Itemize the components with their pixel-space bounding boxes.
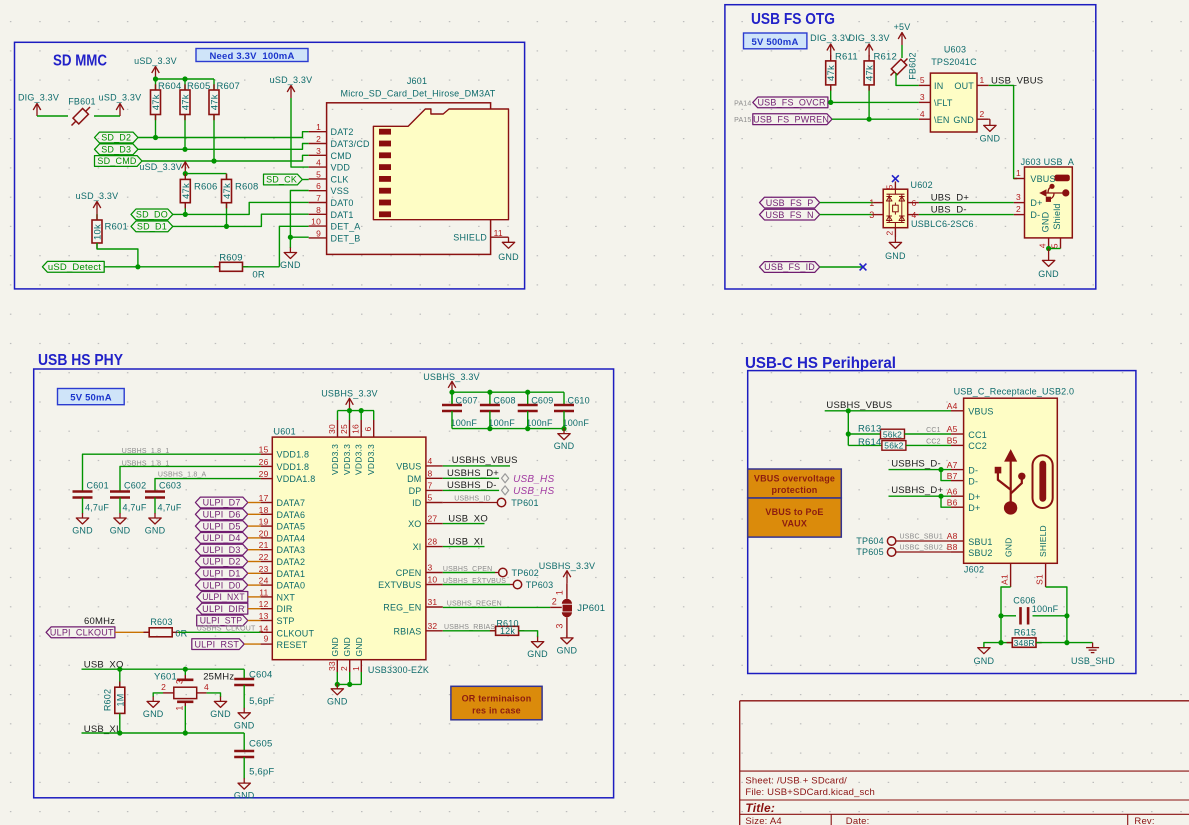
svg-text:VDDA1.8: VDDA1.8 <box>277 474 316 484</box>
svg-text:ULPI_DIR: ULPI_DIR <box>202 604 245 614</box>
svg-text:GND: GND <box>1040 211 1050 232</box>
svg-text:USB_C_Receptacle_USB2.0: USB_C_Receptacle_USB2.0 <box>954 387 1075 397</box>
svg-text:CLK: CLK <box>331 174 349 184</box>
svg-text:CC2: CC2 <box>968 441 987 451</box>
svg-text:VAUX: VAUX <box>782 519 807 529</box>
svg-text:USBHS_3.3V: USBHS_3.3V <box>423 372 480 382</box>
svg-text:USB_FS_ID: USB_FS_ID <box>764 262 815 272</box>
svg-text:Rev:: Rev: <box>1134 816 1154 825</box>
svg-text:VBUS: VBUS <box>396 461 421 471</box>
svg-text:VSS: VSS <box>331 186 350 196</box>
svg-text:25: 25 <box>339 424 349 434</box>
svg-text:USB HS PHY: USB HS PHY <box>38 352 124 369</box>
svg-text:ULPI_D5: ULPI_D5 <box>203 521 241 531</box>
svg-text:11: 11 <box>494 228 503 238</box>
svg-text:C608: C608 <box>493 396 515 406</box>
svg-text:B8: B8 <box>947 542 958 552</box>
svg-text:100nF: 100nF <box>488 418 515 428</box>
svg-text:4,7uF: 4,7uF <box>85 503 109 513</box>
svg-text:USBHS_VBUS: USBHS_VBUS <box>452 455 518 466</box>
svg-text:GND: GND <box>885 251 906 261</box>
svg-text:33: 33 <box>327 661 337 671</box>
svg-text:C603: C603 <box>159 481 181 491</box>
svg-text:SBU1: SBU1 <box>968 537 992 547</box>
svg-text:5: 5 <box>428 493 433 503</box>
svg-text:10: 10 <box>428 575 438 585</box>
svg-text:Sheet: /USB + SDcard/: Sheet: /USB + SDcard/ <box>745 776 847 787</box>
svg-text:Date:: Date: <box>846 816 870 825</box>
svg-text:USBHS_D+: USBHS_D+ <box>447 468 499 479</box>
svg-text:A6: A6 <box>947 486 958 496</box>
svg-text:23: 23 <box>259 564 269 574</box>
svg-text:10: 10 <box>311 217 321 227</box>
svg-text:DATA3: DATA3 <box>277 545 306 555</box>
svg-text:D-: D- <box>968 476 978 486</box>
svg-text:ULPI_D4: ULPI_D4 <box>203 533 241 543</box>
svg-text:U602: U602 <box>911 180 933 190</box>
svg-text:USBHS_D-: USBHS_D- <box>447 480 497 491</box>
svg-text:C605: C605 <box>249 739 273 750</box>
svg-text:VDD3.3: VDD3.3 <box>342 444 352 475</box>
svg-text:+5V: +5V <box>894 22 911 32</box>
svg-text:USB3300-EZK: USB3300-EZK <box>368 665 429 675</box>
svg-text:4,7uF: 4,7uF <box>123 503 147 513</box>
svg-text:USBHS_CLKOUT: USBHS_CLKOUT <box>197 626 256 633</box>
svg-text:31: 31 <box>428 597 438 607</box>
svg-text:D+: D+ <box>1030 198 1042 208</box>
svg-text:\FLT: \FLT <box>934 98 953 108</box>
svg-text:5: 5 <box>884 184 894 189</box>
svg-text:ULPI_STP: ULPI_STP <box>200 616 243 626</box>
svg-text:30: 30 <box>327 424 337 434</box>
svg-text:1: 1 <box>980 75 985 85</box>
svg-text:25MHz: 25MHz <box>203 672 234 683</box>
svg-text:32: 32 <box>428 621 438 631</box>
svg-text:2: 2 <box>339 666 349 671</box>
svg-text:6: 6 <box>363 426 373 431</box>
svg-text:4: 4 <box>204 682 209 692</box>
svg-text:U603: U603 <box>944 45 966 55</box>
svg-text:D+: D+ <box>968 492 980 502</box>
svg-text:S1: S1 <box>1035 574 1045 585</box>
svg-text:TP602: TP602 <box>512 568 540 578</box>
svg-text:USB-C HS Perihperal: USB-C HS Perihperal <box>745 355 896 372</box>
svg-text:1: 1 <box>1016 168 1021 178</box>
svg-text:USB_HS: USB_HS <box>513 474 554 485</box>
svg-text:GND: GND <box>234 720 255 730</box>
svg-text:CMD: CMD <box>331 151 352 161</box>
svg-text:USBHS_VBUS: USBHS_VBUS <box>826 400 892 411</box>
svg-text:DATA5: DATA5 <box>277 522 306 532</box>
svg-text:TP601: TP601 <box>511 498 539 508</box>
svg-text:RESET: RESET <box>277 640 308 650</box>
svg-text:16: 16 <box>351 424 361 434</box>
svg-text:CC1: CC1 <box>926 427 941 434</box>
svg-text:USB_FS_PWREN: USB_FS_PWREN <box>753 114 829 124</box>
svg-text:ULPI_NXT: ULPI_NXT <box>202 592 245 602</box>
svg-text:19: 19 <box>259 517 269 527</box>
svg-text:3: 3 <box>316 146 321 156</box>
svg-text:USB_FS_N: USB_FS_N <box>766 210 814 220</box>
svg-text:R611: R611 <box>835 52 858 63</box>
svg-text:SD_CMD: SD_CMD <box>97 156 137 166</box>
svg-text:SBU2: SBU2 <box>968 548 992 558</box>
svg-text:XO: XO <box>408 519 421 529</box>
svg-text:R613: R613 <box>858 424 882 435</box>
svg-text:TP604: TP604 <box>856 536 884 546</box>
svg-text:R602: R602 <box>103 689 113 711</box>
svg-text:47k: 47k <box>826 65 837 81</box>
svg-text:9: 9 <box>264 634 269 644</box>
svg-text:DIG_3.3V: DIG_3.3V <box>810 33 851 43</box>
svg-text:VBUS overvoltage: VBUS overvoltage <box>754 474 835 484</box>
svg-text:3: 3 <box>175 679 185 684</box>
svg-text:1: 1 <box>316 122 321 132</box>
svg-text:USB_FS_OVCR: USB_FS_OVCR <box>757 98 826 108</box>
svg-text:12: 12 <box>259 599 269 609</box>
svg-text:\EN: \EN <box>934 115 950 125</box>
svg-text:3: 3 <box>1016 192 1021 202</box>
svg-text:B7: B7 <box>947 471 958 481</box>
svg-text:A1: A1 <box>1000 574 1010 585</box>
svg-text:8: 8 <box>428 468 433 478</box>
svg-text:TP603: TP603 <box>526 580 554 590</box>
svg-text:USBHS_3.3V: USBHS_3.3V <box>321 389 378 399</box>
svg-text:J602: J602 <box>964 565 984 575</box>
svg-text:USBHS_D-: USBHS_D- <box>891 459 941 470</box>
svg-text:R614: R614 <box>858 437 882 448</box>
svg-text:NXT: NXT <box>277 592 296 602</box>
svg-text:DAT1: DAT1 <box>331 210 354 220</box>
svg-text:FB601: FB601 <box>68 97 96 107</box>
svg-text:4: 4 <box>428 456 433 466</box>
svg-text:24: 24 <box>259 576 269 586</box>
svg-text:DATA6: DATA6 <box>277 510 306 520</box>
svg-text:DAT3/CD: DAT3/CD <box>331 139 371 149</box>
svg-text:SD_D3: SD_D3 <box>101 145 131 155</box>
svg-text:R603: R603 <box>150 617 172 627</box>
svg-text:R607: R607 <box>217 81 241 92</box>
svg-text:CC2: CC2 <box>926 439 941 446</box>
svg-text:uSD_3.3V: uSD_3.3V <box>270 75 313 85</box>
svg-text:ULPI_D1: ULPI_D1 <box>203 569 241 579</box>
svg-text:protection: protection <box>772 485 818 495</box>
svg-text:Shield: Shield <box>1052 203 1062 229</box>
svg-text:SD_CK: SD_CK <box>266 175 297 185</box>
svg-text:2: 2 <box>161 682 166 692</box>
svg-text:SHIELD: SHIELD <box>1038 525 1048 557</box>
svg-text:U601: U601 <box>274 427 296 437</box>
svg-text:J601: J601 <box>407 76 427 86</box>
svg-text:100nF: 100nF <box>526 418 553 428</box>
svg-text:ULPI_D7: ULPI_D7 <box>203 498 241 508</box>
svg-text:C607: C607 <box>456 396 478 406</box>
svg-text:DIR: DIR <box>277 604 293 614</box>
svg-text:J603 USB_A: J603 USB_A <box>1021 157 1075 167</box>
svg-text:47k: 47k <box>865 65 876 81</box>
svg-text:5: 5 <box>920 75 925 85</box>
svg-text:VBUS: VBUS <box>968 407 993 417</box>
svg-text:USBHS_REGEN: USBHS_REGEN <box>447 600 502 607</box>
svg-text:100nF: 100nF <box>451 418 478 428</box>
svg-text:6: 6 <box>316 181 321 191</box>
svg-text:GND: GND <box>354 637 364 657</box>
svg-text:3: 3 <box>428 563 433 573</box>
svg-text:USBHS_ID: USBHS_ID <box>454 495 491 502</box>
svg-text:Size: A4: Size: A4 <box>745 816 781 825</box>
svg-text:GND: GND <box>143 709 164 719</box>
svg-text:2: 2 <box>552 597 557 607</box>
svg-text:28: 28 <box>428 537 438 547</box>
svg-text:TP605: TP605 <box>856 547 884 557</box>
svg-text:DIG_3.3V: DIG_3.3V <box>849 33 890 43</box>
svg-text:DAT2: DAT2 <box>331 127 354 137</box>
svg-text:FB602: FB602 <box>908 52 918 80</box>
svg-text:15: 15 <box>259 445 269 455</box>
svg-text:SHIELD: SHIELD <box>453 233 487 243</box>
svg-text:RBIAS: RBIAS <box>393 626 421 636</box>
svg-text:uSD_Detect: uSD_Detect <box>48 262 102 272</box>
svg-text:7: 7 <box>428 480 433 490</box>
svg-text:uSD_3.3V: uSD_3.3V <box>76 191 119 201</box>
svg-text:VDD: VDD <box>331 163 351 173</box>
svg-text:STP: STP <box>277 616 295 626</box>
svg-text:JP601: JP601 <box>577 603 605 614</box>
svg-text:47k: 47k <box>151 94 162 110</box>
svg-text:47k: 47k <box>181 94 192 110</box>
svg-text:GND: GND <box>210 709 231 719</box>
svg-text:EXTVBUS: EXTVBUS <box>378 580 421 590</box>
svg-text:Need 3.3V 100mA: Need 3.3V 100mA <box>209 51 294 62</box>
svg-text:USBC_SBU2: USBC_SBU2 <box>900 545 943 552</box>
svg-text:DATA4: DATA4 <box>277 533 306 543</box>
svg-text:CLKOUT: CLKOUT <box>277 628 315 638</box>
svg-text:3: 3 <box>555 623 565 628</box>
svg-text:17: 17 <box>259 493 269 503</box>
svg-text:USBLC6-2SC6: USBLC6-2SC6 <box>911 219 974 229</box>
svg-text:C610: C610 <box>568 396 590 406</box>
svg-text:5: 5 <box>316 169 321 179</box>
svg-text:uSD_3.3V: uSD_3.3V <box>99 93 142 103</box>
svg-text:USBHS_D+: USBHS_D+ <box>891 485 943 496</box>
svg-text:A7: A7 <box>947 460 958 470</box>
svg-text:20: 20 <box>259 528 269 538</box>
svg-text:C602: C602 <box>124 481 146 491</box>
svg-text:USBC_SBU1: USBC_SBU1 <box>900 534 943 541</box>
svg-text:OUT: OUT <box>954 81 974 91</box>
svg-text:56k2: 56k2 <box>884 441 903 451</box>
svg-text:B5: B5 <box>947 436 958 446</box>
svg-text:Micro_SD_Card_Det_Hirose_DM3AT: Micro_SD_Card_Det_Hirose_DM3AT <box>341 89 496 99</box>
svg-text:12k: 12k <box>500 626 515 636</box>
svg-text:ULPI_D0: ULPI_D0 <box>203 580 241 590</box>
svg-text:uSD_3.3V: uSD_3.3V <box>139 162 182 172</box>
svg-text:21: 21 <box>259 540 269 550</box>
svg-text:R609: R609 <box>219 253 243 264</box>
svg-text:100nF: 100nF <box>1032 604 1059 614</box>
svg-text:XI: XI <box>413 542 422 552</box>
svg-text:3: 3 <box>920 92 925 102</box>
svg-text:1: 1 <box>555 590 565 595</box>
svg-text:ULPI_CLKOUT: ULPI_CLKOUT <box>50 628 114 638</box>
svg-text:5V 50mA: 5V 50mA <box>70 393 112 404</box>
svg-text:ID: ID <box>412 498 422 508</box>
svg-text:DET_A: DET_A <box>331 222 361 232</box>
svg-text:GND: GND <box>980 134 1001 144</box>
svg-text:1: 1 <box>175 705 185 710</box>
svg-text:DM: DM <box>407 474 421 484</box>
svg-text:TPS2041C: TPS2041C <box>931 57 977 67</box>
svg-text:uSD_3.3V: uSD_3.3V <box>134 56 177 66</box>
svg-text:R606: R606 <box>194 182 218 193</box>
svg-text:USBHS_CPEN: USBHS_CPEN <box>443 566 492 573</box>
svg-text:R608: R608 <box>235 182 259 193</box>
svg-text:DET_B: DET_B <box>331 233 361 243</box>
svg-text:SD MMC: SD MMC <box>53 53 107 70</box>
svg-text:SD_DO: SD_DO <box>136 210 168 220</box>
svg-text:C601: C601 <box>87 481 109 491</box>
svg-text:2: 2 <box>884 230 894 235</box>
svg-text:60MHz: 60MHz <box>84 616 115 627</box>
svg-text:18: 18 <box>259 505 269 515</box>
svg-text:C604: C604 <box>249 670 273 681</box>
svg-text:SD_D1: SD_D1 <box>137 222 167 232</box>
svg-text:27: 27 <box>428 514 438 524</box>
svg-text:USB FS OTG: USB FS OTG <box>751 11 835 28</box>
svg-text:8: 8 <box>316 205 321 215</box>
svg-text:USB_SHD: USB_SHD <box>1071 656 1115 666</box>
svg-text:R604: R604 <box>158 81 182 92</box>
svg-text:10k: 10k <box>93 224 104 240</box>
svg-text:VDD3.3: VDD3.3 <box>354 444 364 475</box>
svg-text:GND: GND <box>145 526 166 536</box>
svg-text:D-: D- <box>1030 210 1040 220</box>
svg-text:2: 2 <box>316 134 321 144</box>
svg-text:5: 5 <box>1050 243 1060 248</box>
svg-text:56k2: 56k2 <box>883 429 902 439</box>
svg-text:PA14: PA14 <box>734 100 751 107</box>
svg-text:UBS_D-: UBS_D- <box>931 205 967 216</box>
svg-text:0R: 0R <box>175 629 187 639</box>
svg-text:ULPI_RST: ULPI_RST <box>194 639 239 649</box>
svg-text:VDD3.3: VDD3.3 <box>330 444 340 475</box>
svg-text:res in case: res in case <box>472 706 521 716</box>
svg-text:DATA0: DATA0 <box>277 581 306 591</box>
svg-text:47k: 47k <box>210 94 221 110</box>
svg-text:CPEN: CPEN <box>396 568 422 578</box>
svg-text:4: 4 <box>316 158 321 168</box>
svg-text:26: 26 <box>259 457 269 467</box>
svg-text:5,6pF: 5,6pF <box>249 696 274 707</box>
svg-text:DATA7: DATA7 <box>277 498 306 508</box>
svg-text:CC1: CC1 <box>968 430 987 440</box>
svg-text:100nF: 100nF <box>563 418 590 428</box>
svg-text:R612: R612 <box>874 52 898 63</box>
svg-text:VDD3.3: VDD3.3 <box>366 444 376 475</box>
svg-text:UBS_D+: UBS_D+ <box>931 193 970 204</box>
svg-text:DIG_3.3V: DIG_3.3V <box>18 93 59 103</box>
svg-text:13: 13 <box>259 611 269 621</box>
svg-text:GND: GND <box>498 252 519 262</box>
svg-text:47k: 47k <box>181 183 192 199</box>
svg-text:File: USB+SDCard.kicad_sch: File: USB+SDCard.kicad_sch <box>745 787 875 798</box>
svg-text:OR terminaison: OR terminaison <box>462 694 532 704</box>
svg-text:VDD1.8: VDD1.8 <box>277 462 310 472</box>
svg-text:REG_EN: REG_EN <box>383 603 421 613</box>
svg-text:GND: GND <box>234 791 255 801</box>
svg-text:USB_FS_P: USB_FS_P <box>766 198 814 208</box>
svg-text:USBHS_RBIAS: USBHS_RBIAS <box>444 624 495 631</box>
svg-text:SD_D2: SD_D2 <box>101 133 131 143</box>
svg-text:GND: GND <box>1004 538 1014 558</box>
svg-text:DATA1: DATA1 <box>277 569 306 579</box>
svg-text:4,7uF: 4,7uF <box>158 503 182 513</box>
svg-text:2: 2 <box>980 109 985 119</box>
svg-text:GND: GND <box>527 649 548 659</box>
svg-text:GND: GND <box>330 637 340 657</box>
svg-text:Title:: Title: <box>745 801 775 815</box>
svg-text:B6: B6 <box>947 497 958 507</box>
svg-text:ULPI_D3: ULPI_D3 <box>203 545 241 555</box>
svg-text:GND: GND <box>974 656 995 666</box>
svg-text:11: 11 <box>259 587 268 597</box>
svg-text:A8: A8 <box>947 531 958 541</box>
svg-text:GND: GND <box>1038 269 1059 279</box>
svg-text:USB_XI: USB_XI <box>448 537 483 548</box>
svg-text:9: 9 <box>316 228 321 238</box>
svg-text:GND: GND <box>953 115 974 125</box>
svg-text:GND: GND <box>280 260 301 270</box>
svg-text:5,6pF: 5,6pF <box>249 767 274 778</box>
svg-text:1M: 1M <box>116 694 126 707</box>
svg-text:VBUS: VBUS <box>1030 174 1055 184</box>
svg-text:DAT0: DAT0 <box>331 198 354 208</box>
svg-text:GND: GND <box>554 441 575 451</box>
svg-text:DP: DP <box>409 486 422 496</box>
svg-text:29: 29 <box>259 469 269 479</box>
svg-text:ULPI_D2: ULPI_D2 <box>203 557 241 567</box>
svg-text:D+: D+ <box>968 503 980 513</box>
svg-text:USB_HS: USB_HS <box>513 486 554 497</box>
svg-text:7: 7 <box>316 193 321 203</box>
svg-text:DATA2: DATA2 <box>277 557 306 567</box>
svg-text:47k: 47k <box>222 183 233 199</box>
svg-text:R601: R601 <box>105 222 129 233</box>
svg-text:0R: 0R <box>252 270 265 281</box>
svg-text:VDD1.8: VDD1.8 <box>277 450 310 460</box>
svg-text:A4: A4 <box>947 401 958 411</box>
svg-text:GND: GND <box>557 645 578 655</box>
svg-text:4: 4 <box>920 109 925 119</box>
svg-text:2: 2 <box>1016 204 1021 214</box>
svg-text:5V 500mA: 5V 500mA <box>751 37 798 48</box>
svg-text:GND: GND <box>342 637 352 657</box>
svg-text:1: 1 <box>351 666 361 671</box>
svg-text:GND: GND <box>327 696 348 706</box>
svg-text:R605: R605 <box>187 81 211 92</box>
svg-text:GND: GND <box>110 526 131 536</box>
svg-text:GND: GND <box>72 526 93 536</box>
svg-text:348R: 348R <box>1014 638 1035 648</box>
svg-text:USBHS_3.3V: USBHS_3.3V <box>539 561 596 571</box>
svg-text:USBHS_1.8_A: USBHS_1.8_A <box>158 471 207 478</box>
svg-text:IN: IN <box>934 81 943 91</box>
svg-text:D-: D- <box>968 465 978 475</box>
svg-text:22: 22 <box>259 552 269 562</box>
svg-text:C609: C609 <box>531 396 553 406</box>
svg-text:ULPI_D6: ULPI_D6 <box>203 510 241 520</box>
svg-text:R615: R615 <box>1014 628 1036 638</box>
